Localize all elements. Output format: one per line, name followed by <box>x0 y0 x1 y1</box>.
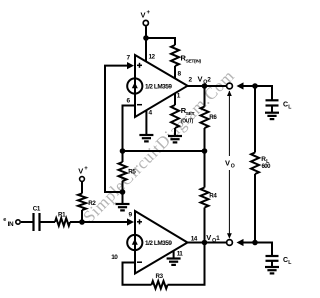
svg-text:1: 1 <box>177 92 181 99</box>
svg-text:1/2 LM359: 1/2 LM359 <box>145 240 172 247</box>
node V+ junction <box>143 35 149 41</box>
capacitor CL bottom <box>266 255 279 257</box>
svg-text:C: C <box>283 102 288 109</box>
wire pin 8 <box>174 66 176 79</box>
resistor R4 <box>204 151 206 188</box>
svg-text:V: V <box>198 75 203 84</box>
wire V+ to RSET(IN) <box>146 38 175 45</box>
svg-text:(OUT): (OUT) <box>181 119 194 125</box>
wire R3 to VO1 node <box>168 243 205 285</box>
wire R1 to pin 9 <box>70 221 128 223</box>
svg-text:V: V <box>206 233 211 242</box>
svg-text:R4: R4 <box>209 193 217 200</box>
svg-text:7: 7 <box>127 54 131 61</box>
svg-text:R1: R1 <box>58 212 66 219</box>
svg-text:6: 6 <box>127 97 131 104</box>
pin 1 wire + label <box>174 93 176 105</box>
svg-text:9: 9 <box>129 212 133 219</box>
resistor R2 <box>81 182 83 194</box>
node R5 top <box>120 148 126 154</box>
terminal VO1 <box>227 240 233 246</box>
ground pin 11 <box>167 257 181 259</box>
svg-text:R5: R5 <box>128 169 136 176</box>
op-amp U2 (1/2 LM359 bottom) <box>135 211 188 274</box>
node VO2 <box>202 83 208 89</box>
resistor RSET(IN) <box>171 45 179 66</box>
svg-text:C: C <box>283 257 288 264</box>
svg-text:R3: R3 <box>156 273 164 280</box>
wire load top with arrow to VO2 <box>243 85 255 87</box>
resistor R6 <box>204 86 206 107</box>
svg-text:SET(IN): SET(IN) <box>186 59 202 65</box>
ground pin4 U1 <box>139 134 153 136</box>
svg-text:e: e <box>3 217 6 223</box>
ground R5 <box>116 203 130 205</box>
svg-text:8: 8 <box>178 70 182 77</box>
capacitor CL top <box>266 99 279 101</box>
pin 11 wire + label <box>173 251 175 259</box>
capacitor C1 <box>32 213 34 231</box>
svg-text:O: O <box>231 164 235 170</box>
op-amp U1 (1/2 LM359 top) <box>135 55 188 117</box>
wire U1 output to VO2 terminal <box>188 85 227 87</box>
svg-text:4: 4 <box>149 110 153 117</box>
svg-text:1/2 LM359: 1/2 LM359 <box>145 84 172 91</box>
node VO1 <box>202 240 208 246</box>
svg-text:V: V <box>78 167 83 176</box>
wire U2 output to VO1 terminal <box>188 242 227 244</box>
ground RSET(OUT) <box>168 135 182 137</box>
svg-text:V: V <box>141 11 146 20</box>
resistor R1 <box>55 218 70 226</box>
svg-text:SET: SET <box>186 111 195 117</box>
svg-text:2: 2 <box>207 77 211 84</box>
svg-text:R6: R6 <box>209 114 217 121</box>
wire pin 7 to R5 bottom node <box>105 66 128 192</box>
resistor RL <box>254 86 256 153</box>
pin 4 wire <box>145 110 147 135</box>
ground CL top <box>265 112 279 114</box>
svg-text:+: + <box>147 10 151 16</box>
V+ supply terminal top <box>145 26 147 62</box>
wire to CL bottom <box>255 243 272 257</box>
terminal VO2 <box>227 83 233 89</box>
current source U1 <box>127 78 142 93</box>
svg-text:V: V <box>225 159 230 168</box>
input terminal eIN <box>16 220 20 224</box>
resistor R5 <box>122 151 124 162</box>
svg-text:IN: IN <box>8 221 14 228</box>
svg-text:600: 600 <box>262 164 272 170</box>
wire load bottom with arrow to VO1 <box>243 242 255 244</box>
node load bottom <box>252 240 258 246</box>
node R5 bottom <box>120 189 126 195</box>
wire pin 6 feedback <box>123 106 136 152</box>
node R6/R4/R5 junction <box>202 148 208 154</box>
svg-text:10: 10 <box>111 254 118 261</box>
svg-text:2: 2 <box>189 77 193 84</box>
wire eIN to C1 <box>21 221 34 223</box>
wire C1 to R1 <box>40 221 56 223</box>
wire RSET(OUT) to ground <box>174 128 176 136</box>
wire to CL top <box>255 86 272 100</box>
wire pin 10 to R3 <box>123 263 152 285</box>
wire CL top to ground <box>271 106 273 113</box>
node R1/R2 junction <box>79 219 85 225</box>
svg-text:14: 14 <box>191 235 198 242</box>
resistor R3 <box>152 281 168 289</box>
wire mid node to R5 <box>123 150 205 152</box>
resistor RSET(OUT) <box>171 105 179 128</box>
V+ supply terminal left <box>80 177 85 182</box>
node load top <box>252 83 258 89</box>
wire CL bottom to ground <box>271 261 273 267</box>
svg-text:R2: R2 <box>88 200 96 207</box>
svg-text:1: 1 <box>216 235 220 242</box>
svg-text:12: 12 <box>149 53 156 60</box>
VO annotation line <box>228 91 230 156</box>
svg-text:+: + <box>84 166 88 172</box>
ground CL bottom <box>265 266 279 268</box>
current source U2 <box>127 235 142 250</box>
svg-text:C1: C1 <box>33 206 41 213</box>
